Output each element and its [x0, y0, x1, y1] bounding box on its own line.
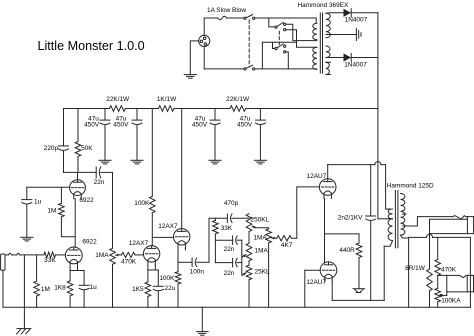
label 440R: [339, 247, 355, 254]
wire secondary out: [403, 217, 453, 226]
wire: [174, 108, 230, 110]
wire: [261, 42, 263, 69]
wire: [437, 275, 439, 288]
wire cathode2-plate1: [74, 199, 76, 247]
svg-text:100n: 100n: [190, 269, 205, 276]
svg-text:12AX7: 12AX7: [158, 223, 178, 230]
label 1u: [34, 199, 42, 206]
potentiometer 100KA: [435, 288, 441, 307]
wire: [214, 240, 216, 262]
wire B+ to tap: [378, 218, 390, 220]
wire: [55, 254, 65, 256]
label 22u: [165, 285, 176, 292]
wire: [241, 255, 243, 257]
label 12AX7: [129, 240, 149, 247]
wire: [136, 109, 138, 120]
resistor 4K7: [277, 236, 292, 241]
ground: [184, 75, 196, 79]
svg-text:470p: 470p: [224, 200, 239, 207]
wire: [262, 41, 296, 43]
potentiometer 250KL treble: [246, 214, 255, 232]
switch S1 power top: [244, 15, 255, 20]
svg-text:25KL: 25KL: [255, 269, 270, 276]
switch S1 dashed link: [248, 20, 250, 67]
wire: [255, 18, 316, 23]
label 1N4007: [344, 62, 367, 69]
wire: [232, 217, 249, 219]
svg-text:470K: 470K: [441, 267, 457, 274]
label 22n: [224, 270, 235, 277]
wire: [60, 187, 62, 203]
wire: [248, 280, 250, 308]
label 2n2/1KV: [338, 215, 363, 222]
AC plug P1: [199, 35, 210, 46]
tube V1b 6922: [70, 180, 86, 199]
title text: [38, 39, 145, 53]
label 1K8: [54, 285, 66, 292]
ground: [209, 160, 221, 164]
resistor 1M: [59, 203, 65, 217]
wire B+ vertical: [377, 13, 379, 219]
resistor 1K5: [145, 270, 151, 307]
svg-text:4K7: 4K7: [281, 242, 293, 249]
resistor 100K cathode: [175, 262, 181, 307]
wire: [26, 205, 28, 237]
capacitor 1u cathode: [79, 271, 89, 308]
wire: [286, 30, 317, 48]
capacitor 2n2/1KV: [366, 165, 376, 301]
transformer T1 secondary winding lower: [326, 46, 330, 58]
label 470K: [121, 259, 137, 266]
wire: [112, 172, 114, 248]
wire: [430, 218, 468, 220]
wire: [204, 68, 244, 70]
wire: [332, 299, 384, 301]
wire: [184, 248, 186, 250]
resistor 1K8: [67, 271, 73, 308]
wire: [120, 254, 122, 256]
wire: [77, 172, 79, 179]
wire grid CF: [152, 236, 173, 238]
wire: [351, 12, 378, 14]
wire sleeve: [2, 270, 4, 307]
wire: [469, 237, 471, 307]
resistor 470K: [435, 237, 441, 275]
wire: [326, 34, 357, 36]
label 6922: [79, 197, 94, 204]
label 1A Slow Blow: [207, 7, 246, 14]
wire: [101, 171, 113, 173]
ground: [99, 160, 111, 164]
wire: [190, 41, 198, 75]
resistor 22K/1W: [230, 106, 246, 112]
label 100n: [190, 269, 205, 276]
label 1M: [41, 286, 50, 293]
wire: [197, 261, 209, 263]
wire: [255, 68, 316, 71]
svg-text:22n: 22n: [224, 270, 235, 277]
svg-text:8R/1W: 8R/1W: [405, 265, 426, 272]
label 100K: [159, 275, 175, 282]
label 1MA: [253, 234, 267, 241]
svg-text:1MA: 1MA: [255, 248, 269, 255]
wire: [125, 108, 158, 110]
wire: [63, 109, 65, 146]
wire: [61, 217, 75, 237]
chassis ground: [17, 329, 31, 334]
capacitor 47u 450V: [255, 120, 265, 125]
switch S1 power bottom: [244, 65, 255, 70]
wire: [304, 270, 306, 307]
label 22n: [224, 246, 235, 253]
label 1u: [90, 284, 98, 291]
capacitor 470p: [227, 214, 232, 223]
wire: [77, 157, 79, 173]
wire phones top: [438, 274, 460, 276]
wire: [259, 125, 261, 160]
switch S2 dashed link: [278, 31, 280, 45]
label 1K/1W: [157, 96, 177, 103]
svg-text:1MA: 1MA: [95, 252, 109, 259]
wire: [215, 262, 232, 264]
wire: [241, 273, 243, 275]
wire: [104, 109, 106, 120]
wire: [447, 275, 467, 292]
wire: [77, 109, 79, 142]
svg-text:Hammond 125D: Hammond 125D: [387, 183, 434, 190]
wire: [286, 24, 317, 40]
svg-text:1A Slow Blow: 1A Slow Blow: [207, 7, 246, 14]
svg-text:Little Monster 1.0.0: Little Monster 1.0.0: [38, 39, 145, 53]
wire: [429, 219, 431, 233]
capacitor 100n: [192, 258, 197, 267]
svg-text:450V: 450V: [237, 121, 253, 128]
transformer T2 core: [395, 191, 398, 248]
transformer T2 primary: [388, 209, 392, 241]
wire: [246, 108, 378, 110]
wire grid2: [27, 186, 70, 188]
wire: [203, 18, 205, 35]
label 22n: [94, 179, 105, 186]
capacitor 47u 450V: [132, 120, 142, 125]
svg-text:1N4007: 1N4007: [345, 17, 368, 24]
capacitor 47u 450V: [210, 120, 220, 125]
wire: [136, 125, 138, 160]
resistor 8R/1W: [427, 234, 433, 308]
svg-text:50K: 50K: [81, 145, 93, 152]
wire: [430, 233, 468, 235]
wire: [269, 18, 275, 27]
transformer T1 primary winding 1: [313, 23, 317, 40]
wire tap stub: [403, 213, 406, 215]
label 47u: [84, 115, 100, 128]
svg-text:1N4007: 1N4007: [344, 62, 367, 69]
resistor 1K/1W: [159, 106, 174, 112]
label 1N4007: [345, 17, 368, 24]
tube V3a 12AU7: [319, 179, 336, 199]
label 470K: [441, 267, 457, 274]
label 22K/1W: [106, 96, 130, 103]
svg-text:6922: 6922: [79, 197, 94, 204]
label 1M: [47, 208, 56, 215]
wire: [256, 228, 269, 229]
capacitor 1u: [22, 200, 32, 205]
wire: [151, 213, 153, 246]
svg-text:22K/1W: 22K/1W: [226, 96, 250, 103]
label 50K: [81, 145, 93, 152]
wire: [248, 232, 250, 244]
wire: [275, 237, 277, 239]
transformer T2 secondary: [401, 194, 405, 236]
capacitor 47u 450V: [100, 120, 110, 125]
svg-text:1u: 1u: [90, 284, 98, 291]
wire node plate2: [64, 171, 97, 173]
label 33K: [221, 225, 233, 232]
wire: [148, 265, 158, 270]
wire: [215, 239, 232, 241]
svg-text:6922: 6922: [82, 239, 97, 246]
wire: [259, 109, 261, 120]
svg-text:1M: 1M: [47, 208, 56, 215]
wire: [214, 109, 216, 120]
tube V3b 12AU7: [320, 262, 337, 282]
label 1MA: [95, 252, 109, 259]
svg-text:2n2/1KV: 2n2/1KV: [338, 215, 363, 222]
transformer T1 secondary winding: [326, 13, 330, 38]
wire grid lower: [305, 269, 320, 271]
ground: [21, 237, 33, 241]
capacitor 22n mid: [233, 258, 238, 267]
resistor 440R: [356, 234, 362, 289]
resistor 33K slope: [213, 218, 219, 240]
wire: [26, 187, 28, 199]
ground: [356, 28, 361, 40]
diode D2 1N4007: [344, 53, 352, 61]
transformer T1 heater winding: [326, 62, 331, 74]
svg-text:450V: 450V: [113, 121, 129, 128]
wire: [237, 262, 242, 264]
label 1K5: [132, 286, 144, 293]
svg-text:22n: 22n: [224, 246, 235, 253]
resistor 1M input: [34, 255, 40, 307]
label 25KL: [255, 269, 270, 276]
wire: [209, 217, 227, 219]
tube V2b 12AX7: [174, 229, 190, 249]
label 12AU7: [306, 279, 326, 286]
resistor 22K/1W: [110, 106, 126, 112]
label 6922: [82, 239, 97, 246]
label 100K: [134, 200, 150, 207]
svg-text:1K/1W: 1K/1W: [157, 96, 177, 103]
wire C hop: [409, 234, 471, 237]
switch S2 selector upper: [275, 22, 286, 30]
svg-text:440R: 440R: [339, 247, 355, 254]
wire jack notch: [453, 216, 468, 220]
wire: [326, 57, 344, 59]
svg-text:1K8: 1K8: [54, 285, 66, 292]
wire: [23, 255, 25, 329]
wire secondary bottom: [401, 235, 409, 238]
wire: [178, 261, 192, 263]
svg-text:22K/1W: 22K/1W: [106, 96, 130, 103]
label 220p: [44, 145, 59, 152]
wire phones notch: [460, 275, 468, 277]
svg-text:470K: 470K: [121, 259, 137, 266]
resistor 100K plate: [150, 196, 156, 213]
wire 440R branch: [325, 233, 360, 235]
fuse F1 1A Slow Blow: [204, 16, 244, 19]
tube V1a 6922: [65, 247, 82, 267]
svg-text:22n: 22n: [94, 179, 105, 186]
label 12AX7: [158, 223, 178, 230]
svg-text:12AU7: 12AU7: [307, 173, 327, 180]
wire: [286, 52, 288, 69]
svg-text:12AX7: 12AX7: [129, 240, 149, 247]
ground: [353, 289, 365, 293]
label 47u: [113, 115, 129, 128]
diode D1 1N4007: [344, 9, 352, 17]
label 33K: [44, 257, 56, 264]
svg-text:100KA: 100KA: [441, 297, 461, 304]
wire: [70, 267, 84, 271]
wiper 100KA: [440, 292, 447, 297]
wire: [181, 109, 183, 229]
tube V2a 12AX7: [143, 246, 159, 266]
ground: [254, 160, 266, 164]
label Hammond 369EX: [297, 2, 349, 9]
wire jack contacts: [5, 253, 44, 255]
label Hammond 125D: [387, 183, 434, 190]
wire: [203, 47, 205, 69]
resistor 50K: [75, 142, 81, 157]
potentiometer 25KL mid: [242, 265, 252, 280]
wire: [237, 239, 242, 241]
potentiometer 1MA bass: [242, 243, 252, 261]
wire: [326, 12, 344, 14]
svg-text:250KL: 250KL: [251, 216, 270, 223]
capacitor 22n: [96, 167, 101, 178]
label 1MA: [255, 248, 269, 255]
svg-text:100K: 100K: [134, 200, 150, 207]
switch S2 selector lower: [275, 44, 286, 53]
svg-text:22u: 22u: [165, 285, 176, 292]
wire plate hop: [328, 162, 391, 209]
svg-text:220p: 220p: [44, 145, 59, 152]
potentiometer 1MA: [266, 229, 275, 243]
wire B+ rail node1: [64, 108, 110, 110]
wire: [273, 42, 275, 48]
svg-text:450V: 450V: [192, 121, 208, 128]
wire: [151, 109, 153, 197]
wire: [248, 261, 250, 265]
transformer T1 core: [320, 13, 322, 73]
label 8R/1W: [405, 265, 426, 272]
svg-text:1K5: 1K5: [132, 286, 144, 293]
svg-text:450V: 450V: [84, 121, 100, 128]
wire: [214, 125, 216, 160]
wire: [104, 125, 106, 160]
label 250KL: [251, 216, 270, 223]
svg-text:1MA: 1MA: [253, 234, 267, 241]
label 12AU7: [307, 173, 327, 180]
resistor 470K: [122, 252, 136, 257]
label 47u: [237, 115, 253, 128]
svg-text:12AU7: 12AU7: [306, 279, 326, 286]
wire: [147, 265, 149, 270]
wire: [351, 57, 378, 59]
svg-text:1u: 1u: [34, 199, 42, 206]
wire: [208, 218, 210, 262]
wire: [177, 248, 179, 262]
wire: [69, 267, 71, 271]
wire: [331, 282, 333, 301]
capacitor 220p: [59, 146, 69, 151]
resistor 33K: [44, 252, 56, 258]
potentiometer 1MA volume: [110, 248, 120, 264]
wire ground bus: [3, 306, 470, 308]
wire: [323, 199, 326, 263]
capacitor 22n bass: [233, 236, 238, 245]
svg-text:33K: 33K: [221, 225, 233, 232]
wire: [384, 241, 392, 301]
ground: [131, 160, 143, 164]
label 4K7: [281, 242, 293, 249]
wire: [291, 187, 319, 238]
svg-text:100K: 100K: [159, 275, 175, 282]
label 22K/1W: [226, 96, 250, 103]
svg-text:33K: 33K: [44, 257, 56, 264]
wire: [408, 238, 410, 307]
capacitor 22u: [153, 270, 163, 307]
input jack J1: [1, 254, 5, 270]
wire: [112, 264, 114, 307]
wire: [268, 243, 270, 307]
label 47u: [192, 115, 208, 128]
wire: [63, 151, 65, 172]
label 470p: [224, 200, 239, 207]
speaker jack J2: [467, 217, 473, 234]
ground: [197, 307, 209, 335]
wire: [135, 254, 143, 256]
transformer T1 primary winding 2: [313, 47, 317, 69]
wire: [241, 240, 243, 273]
phones jack J3: [467, 275, 473, 291]
svg-text:1M: 1M: [41, 286, 50, 293]
label 100KA: [441, 297, 461, 304]
svg-text:Hammond 369EX: Hammond 369EX: [297, 2, 349, 9]
